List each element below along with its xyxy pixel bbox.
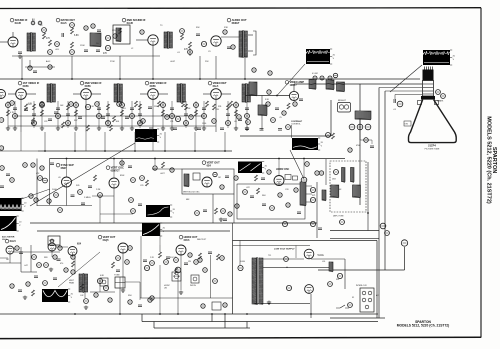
resistor R34	[246, 120, 251, 125]
wire y169 left stub	[152, 168, 182, 170]
svg-text:VERT BLOCK OSC: VERT BLOCK OSC	[183, 191, 200, 193]
wire power box inner top y245.5	[233, 245, 310, 247]
resistor R119	[235, 204, 239, 208]
svg-text:.0027: .0027	[160, 173, 165, 175]
tube V3 audio output	[211, 36, 221, 46]
component chain under IF stage at x=99	[98, 101, 100, 128]
svg-text:5U4G: 5U4G	[240, 261, 245, 263]
capacitor bypass	[238, 119, 242, 121]
resistor bias network	[25, 104, 28, 110]
border right edge of schematic sheet	[480, 8, 482, 338]
resistor R4	[71, 42, 74, 48]
wire power box vertical x240	[239, 241, 241, 266]
component chain under IF stage at x=76	[75, 101, 77, 128]
wire return step y321	[142, 321, 378, 323]
capacitor bypass	[48, 119, 52, 121]
width coil L15	[322, 190, 326, 201]
component chain under IF stage at x=122	[121, 101, 123, 128]
svg-text:47K: 47K	[103, 53, 108, 55]
wire V1 plate lead	[12, 32, 14, 37]
ground bottom left	[23, 296, 27, 300]
IF transformer T5	[47, 83, 55, 103]
component chain under IF stage at x=247	[246, 101, 248, 128]
coil L12 with damping resistor	[337, 82, 345, 92]
coupling coil L2 inside can	[116, 28, 121, 42]
wire plate lead	[158, 93, 168, 95]
wire row1 lower link	[12, 55, 160, 57]
wire cathode drop to AGC rail	[215, 99, 217, 132]
wire drop x52	[51, 251, 53, 257]
svg-text:40: 40	[286, 267, 288, 269]
tube 6AL5 VIDEO DET	[211, 89, 222, 100]
rectifier tube V16 5U4G	[304, 249, 314, 259]
resistor R123	[194, 260, 199, 265]
wire yoke link y292	[90, 291, 115, 293]
component chain under IF stage at x=172	[171, 101, 173, 128]
svg-text:330: 330	[106, 121, 109, 123]
tube V2 second sound IF	[148, 35, 158, 45]
resistor (circled)	[237, 115, 242, 120]
fuse F1	[348, 303, 353, 308]
wire mid rail upper	[38, 150, 232, 152]
wire return step y328	[154, 327, 250, 329]
resistor R46	[43, 178, 48, 183]
potentiometer contrast	[286, 125, 291, 130]
capacitor	[125, 117, 129, 119]
wire vertical x210.5	[210, 255, 212, 298]
resistor pair	[315, 171, 319, 175]
svg-text:.047: .047	[28, 104, 32, 106]
resistor R7	[105, 45, 110, 50]
capacitor C22	[278, 129, 282, 131]
wire vertical x49.5	[49, 159, 51, 206]
resistor R84	[53, 255, 57, 259]
waveform photo W3 vertical sawtooth	[238, 162, 268, 174]
resistor R116	[94, 293, 98, 297]
svg-text:SYNC SEP: SYNC SEP	[61, 163, 74, 167]
svg-text:1 MEG: 1 MEG	[84, 197, 91, 199]
capacitor	[78, 117, 82, 119]
cluster near AGC keyer tube	[144, 265, 149, 270]
wire x291 riser to waveform point	[291, 125, 293, 138]
resistor bias network	[213, 104, 216, 110]
wire transformer bottom lead y303.7	[253, 303, 310, 305]
svg-text:HORIZ OUT: HORIZ OUT	[184, 236, 198, 239]
capacitor C27	[81, 203, 85, 205]
resistor R97	[337, 273, 342, 278]
capacitor	[101, 117, 105, 119]
capacitor C21	[260, 129, 264, 131]
resistor (circled)	[189, 115, 194, 120]
resistor R103	[153, 166, 157, 170]
wire drops row2 to mid rail	[44, 132, 46, 151]
svg-text:6S4: 6S4	[77, 243, 82, 246]
capacitor filter C44	[238, 265, 243, 270]
wire horizontal y238 right	[330, 238, 379, 240]
resistor R126	[220, 256, 225, 261]
shielded discriminator can	[113, 25, 130, 44]
resistor R89	[71, 270, 75, 274]
svg-text:INTERLOCK: INTERLOCK	[356, 285, 368, 287]
resistor R94	[84, 299, 89, 304]
resistor R111	[364, 138, 369, 143]
wire y298 bottom link	[140, 297, 233, 299]
waveform photo W6 integrator S-curve	[146, 205, 176, 217]
svg-text:.047: .047	[24, 265, 28, 267]
wire plate lead	[26, 93, 36, 95]
capacitor C56	[203, 210, 207, 212]
horizontal AFC assembly box	[237, 184, 305, 219]
resistor R18	[231, 45, 235, 49]
ion trap magnet black band	[421, 96, 435, 100]
wire long vertical x385 (HV line)	[384, 91, 386, 270]
wire sync rail	[240, 135, 331, 137]
wire grid lead	[73, 93, 81, 95]
svg-text:6AU6: 6AU6	[127, 22, 134, 25]
svg-text:R64: R64	[262, 195, 265, 197]
wire long vertical x360	[359, 84, 361, 205]
component chain under IF stage at x=204	[203, 101, 205, 128]
wire y247 link	[56, 246, 68, 248]
wire riser x153	[152, 45, 154, 56]
resistor (circled value)	[85, 104, 90, 109]
resistor R83	[44, 263, 49, 268]
speaker terminals	[253, 31, 256, 55]
resistor R44	[397, 101, 403, 107]
wire horizontal rail y223	[30, 222, 317, 224]
resistor R61	[221, 209, 226, 214]
resistor R124	[203, 268, 208, 273]
resistor AFC R64	[270, 206, 275, 211]
wire long vertical x379 (boost line)	[378, 88, 380, 319]
wire CRT grid2 line y91	[385, 90, 422, 92]
resistor zigzag	[182, 101, 185, 107]
resistor AFC R62	[243, 190, 248, 195]
resistor R106	[223, 303, 227, 307]
capacitor C51	[128, 166, 132, 168]
svg-text:47K: 47K	[184, 49, 189, 51]
capacitor C55	[53, 278, 57, 280]
vertical output transformer T10	[79, 273, 88, 293]
wire drop x85	[84, 292, 86, 298]
wire drop x30 row1	[29, 60, 31, 67]
svg-text:6CB6: 6CB6	[23, 86, 30, 88]
junction dot	[159, 313, 161, 315]
stage label VERT OUT 6AQ5	[98, 235, 116, 242]
component chain under IF stage at x=15	[14, 101, 16, 128]
resistor R82	[37, 263, 42, 268]
wire vertical x31	[30, 245, 32, 272]
resistor R14	[113, 34, 117, 38]
resistor R118	[234, 176, 238, 180]
capacitor block in box	[193, 173, 200, 180]
capacitor	[245, 128, 249, 130]
waveform photo W4 composite video (top)	[306, 49, 336, 64]
capacitor C1	[18, 52, 22, 54]
control CONTRAST winding	[355, 111, 371, 120]
wire x100 drop row4	[99, 283, 101, 292]
resistor R92	[103, 285, 108, 290]
wire plate lead	[91, 93, 101, 95]
svg-text:L16: L16	[322, 261, 325, 263]
wire speaker leads	[248, 34, 253, 36]
capacitor	[149, 128, 153, 130]
stage label HORIZ OUT 6CU6	[179, 235, 198, 242]
component chain under IF stage at x=236	[235, 101, 237, 128]
picture tube funnel and faceplate	[409, 100, 457, 143]
component chain under IF stage at x=58	[57, 101, 59, 128]
resistor R95	[159, 252, 162, 258]
parts above bus: resistor R30	[252, 68, 256, 72]
junction dot video det output	[276, 95, 278, 97]
svg-text:VERT OUT: VERT OUT	[207, 161, 221, 165]
ground power supply	[267, 301, 271, 305]
resistor R3 screen stack	[71, 28, 74, 34]
resistor R87	[71, 255, 75, 259]
resistor zigzag	[230, 101, 233, 107]
wire drop x160b	[159, 265, 161, 314]
tube V18 vertical output	[118, 243, 128, 253]
junction dot yoke feed	[367, 212, 369, 214]
wire stub left edge y151	[0, 150, 38, 152]
resistor (circled)	[40, 102, 45, 107]
svg-text:C31: C31	[170, 121, 173, 123]
resistor R114	[26, 282, 30, 286]
resistor R56	[146, 180, 149, 186]
resistor R85	[58, 246, 62, 250]
audio output transformer T4	[239, 30, 247, 58]
wire V2 grid lead	[136, 39, 148, 41]
wire mid rail lower	[50, 158, 346, 160]
svg-text:YOKE: YOKE	[114, 275, 120, 277]
wire bottom y205.5	[37, 205, 92, 207]
stage label AGC 6AL5	[5, 239, 16, 243]
deflection yoke plug	[115, 277, 125, 288]
resistor R6	[105, 35, 110, 40]
capacitor C10	[33, 71, 37, 73]
svg-text:R31: R31	[218, 106, 221, 108]
wire V1 grid stub from left edge	[0, 41, 8, 43]
svg-text:R45: R45	[76, 185, 79, 187]
capacitor C36	[318, 228, 322, 230]
stage label VERT BLOCK OSC	[202, 161, 220, 168]
resistor focus bleeder	[401, 240, 407, 246]
resistor R41	[357, 124, 363, 130]
comps near bottom mid	[128, 300, 132, 304]
wire heater winding lead y259	[263, 258, 304, 260]
stage label SYNC SEP 6SN7	[56, 163, 74, 170]
svg-text:BRIGHT: BRIGHT	[338, 100, 347, 102]
wire x232.5 upper segment	[232, 223, 234, 241]
resistor in box R58	[220, 185, 224, 189]
yoke horizontal winding right	[353, 185, 361, 198]
wire coil links	[302, 83, 309, 85]
on-off switch S1	[340, 305, 345, 308]
svg-text:PICTURE TUBE: PICTURE TUBE	[425, 148, 440, 150]
cut-off resistor left edge 3	[0, 146, 4, 150]
wire riser x225	[224, 314, 226, 328]
svg-text:C29: C29	[140, 185, 143, 187]
resistor R107	[201, 304, 205, 308]
wire plate lead	[221, 93, 231, 95]
ground under V19	[179, 291, 183, 295]
wire vertical x75 to output transformer	[74, 255, 76, 274]
svg-text:F1: F1	[352, 297, 354, 299]
comp column right of vert osc	[131, 178, 136, 183]
capacitor	[24, 109, 28, 111]
stage label VIDEO DET 6AL5	[208, 81, 227, 88]
component chain under IF stage at x=8	[7, 101, 9, 128]
border top edge of schematic sheet	[0, 7, 481, 10]
resistor R15 zigzag	[119, 28, 122, 34]
tube 6CB6 3RD VIDEO IF	[148, 89, 159, 100]
wire horizontal y263	[0, 262, 21, 264]
svg-text:.022: .022	[246, 187, 250, 189]
wire horizontal y230 right	[330, 230, 379, 232]
component chain under IF stage at x=68	[67, 101, 69, 128]
svg-text:SEE TEXT: SEE TEXT	[197, 239, 207, 241]
resistor R50	[58, 208, 63, 213]
resistor R52	[98, 193, 103, 198]
resistor R35	[271, 118, 276, 123]
picture tube base cap (black)	[423, 70, 434, 81]
svg-text:R97: R97	[336, 279, 339, 281]
tube V8 video amplifier	[289, 91, 298, 100]
wire bottom box top edge y240.5	[233, 240, 378, 242]
svg-text:470K: 470K	[356, 145, 361, 147]
wire cathode drop to AGC rail	[85, 99, 87, 132]
wire yoke feed vertical x368	[367, 162, 369, 231]
resistor R32 below V8	[287, 103, 290, 109]
junction eyelet	[267, 90, 271, 94]
resistor R1	[43, 33, 46, 39]
resistor R113	[10, 284, 14, 288]
resistor (circled)	[165, 115, 170, 120]
parts above bus: capacitor C15	[268, 71, 272, 75]
eyelet on y298	[150, 296, 154, 300]
resistor R72	[282, 221, 287, 226]
component chain under IF stage at x=42	[41, 101, 43, 128]
component chain under V18	[122, 253, 124, 288]
pointer line from W1 to sync separator grid	[30, 143, 135, 206]
svg-text:21ZP4: 21ZP4	[428, 144, 436, 148]
stage label 2ND VIDEO IF 6CB6	[80, 81, 102, 88]
resistor R71	[310, 197, 315, 202]
svg-text:LOW VOLT SUPPLY: LOW VOLT SUPPLY	[274, 249, 295, 251]
svg-text:2.2M: 2.2M	[96, 189, 101, 191]
svg-text:6K6GT: 6K6GT	[232, 22, 240, 25]
drive control box	[191, 275, 199, 283]
wire horizontal y196 short	[92, 195, 114, 197]
capacitor C9	[227, 47, 231, 49]
transformer T1 sound interstage	[27, 32, 35, 52]
capacitor	[54, 112, 58, 114]
waveform photo W1 video IF response, with side scale ticks	[135, 129, 163, 142]
wire box left mid: vertical x37	[36, 159, 38, 207]
wire contrast drop x360	[359, 119, 361, 140]
stage label RATIO DET 6AL5	[56, 18, 75, 25]
capacitor filter C45	[284, 257, 289, 262]
waveform photo W5 kinescope drive (top right)	[423, 50, 456, 65]
wire video line to CRT cathode	[294, 83, 422, 85]
resistor R73	[310, 221, 315, 226]
resistor bias network	[113, 116, 116, 122]
capacitor C40	[19, 252, 23, 254]
resistor R101	[40, 166, 44, 170]
tube V12 horizontal oscillator	[274, 176, 284, 186]
ground below	[84, 306, 88, 310]
resistor (circled)	[212, 119, 217, 124]
wire B+ bus bottom y314	[0, 313, 378, 315]
wire yoke to right y282	[125, 281, 140, 283]
resistor R36 near sync rail	[326, 133, 331, 138]
label 6X4 circled	[286, 285, 291, 290]
resistor (circled)	[141, 119, 146, 124]
resistor R9	[189, 42, 192, 48]
resistor in box R57	[213, 172, 217, 176]
svg-text:6S4: 6S4	[207, 164, 212, 167]
wire drop x10 AGC	[9, 254, 11, 263]
svg-text:C22: C22	[44, 121, 47, 123]
cut-off tube at left edge row2	[0, 90, 6, 99]
power transformer T11	[252, 257, 263, 305]
border bottom edge of schematic sheet	[0, 337, 481, 338]
resistor R105	[170, 168, 174, 172]
svg-text:470K: 470K	[186, 108, 191, 110]
resistor R53	[140, 176, 145, 181]
capacitor C28	[88, 186, 92, 188]
IF transformer T6	[114, 83, 122, 103]
resistor AFC R65	[278, 193, 282, 197]
svg-text:VIDEO AMP: VIDEO AMP	[290, 80, 305, 84]
resistor (circled)	[69, 102, 74, 107]
resistor zigzag	[62, 122, 65, 128]
svg-text:.25: .25	[279, 117, 282, 119]
tube 6CB6 1ST VIDEO IF	[16, 89, 27, 100]
resistor R117	[108, 298, 112, 302]
small parts above bus left	[28, 66, 32, 70]
wire drop x178 focus	[177, 273, 179, 314]
svg-text:6AL5: 6AL5	[213, 85, 219, 88]
pointer line from W2 to horizontal oscillator	[290, 150, 304, 179]
capacitor C29	[138, 204, 142, 206]
waveform photo W10 vertical output parabola	[42, 289, 74, 302]
resistor above L12	[333, 73, 337, 77]
svg-text:CONTRAST: CONTRAST	[291, 120, 303, 123]
svg-text:FOCUS: FOCUS	[170, 257, 177, 259]
waveform photo W9 vertical deflection (left edge)	[0, 216, 22, 231]
stage label 3RD VIDEO IF 6CB6	[145, 81, 167, 88]
resistor R91	[97, 278, 102, 283]
svg-text:5U4G: 5U4G	[318, 254, 324, 257]
comp right of C2 box	[305, 162, 310, 167]
capacitor C35	[261, 178, 265, 180]
svg-text:R83: R83	[44, 257, 47, 259]
capacitor C54	[18, 290, 22, 292]
resistor R54	[129, 198, 134, 203]
svg-text:6AQ5: 6AQ5	[103, 239, 110, 242]
svg-text:AGC KEYER: AGC KEYER	[2, 236, 15, 239]
stage label 2ND SOUND IF 6AU6	[122, 18, 146, 25]
pointer from W10 to vertical output plate	[58, 252, 100, 287]
capacitor C24 spark gap	[394, 99, 396, 103]
wire x160 riser	[159, 245, 161, 252]
resistor R16	[140, 30, 144, 34]
svg-text:C42: C42	[80, 295, 83, 297]
brightness control cluster	[338, 103, 351, 113]
vert linearity control box	[100, 278, 108, 286]
resistor R120	[228, 212, 232, 216]
